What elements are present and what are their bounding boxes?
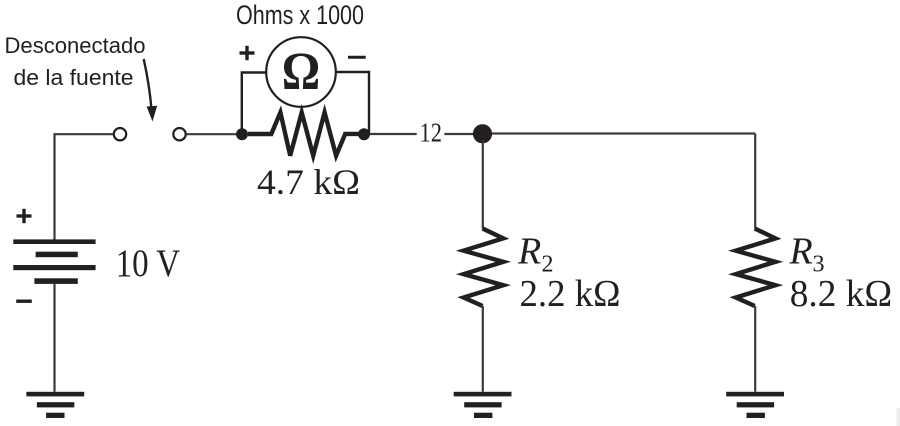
ground symbol GND2	[454, 392, 512, 418]
svg-text:R: R	[517, 231, 541, 273]
battery BT1 minus polarity label	[16, 300, 32, 303]
wire: switch to node A	[186, 133, 242, 135]
junction node C dot	[473, 124, 492, 143]
svg-text:R: R	[789, 231, 813, 273]
label: Desconectado de la fuente	[5, 33, 146, 90]
wire: node C down to R2	[482, 140, 484, 229]
svg-text:12: 12	[420, 117, 443, 147]
wire: rail corner down to R3	[754, 134, 756, 229]
svg-text:Ohms x 1000: Ohms x 1000	[236, 0, 364, 30]
wire: battery to ground	[53, 284, 55, 392]
wire: R2 to ground	[482, 306, 484, 392]
battery BT1 plus polarity label	[17, 209, 32, 223]
junction node A dot	[236, 128, 248, 140]
ohmmeter M1 body	[266, 37, 336, 107]
resistor R1 4.7k zigzag	[248, 112, 359, 155]
wire: label 12 to node C	[444, 133, 474, 135]
svg-text:Desconectado: Desconectado	[5, 33, 146, 58]
switch S1 open contact right terminal	[173, 128, 185, 140]
svg-text:8.2 kΩ: 8.2 kΩ	[790, 273, 893, 315]
ground symbol GND3	[726, 392, 784, 418]
resistor R2 zigzag	[464, 229, 504, 307]
svg-text:2.2 kΩ: 2.2 kΩ	[520, 273, 621, 315]
resistor R3 zigzag	[736, 229, 776, 307]
ohmmeter M1 minus polarity label	[348, 56, 366, 59]
svg-text:Ω: Ω	[282, 42, 320, 102]
svg-text:4.7 kΩ: 4.7 kΩ	[257, 162, 360, 202]
ground symbol GND1	[26, 392, 84, 418]
svg-text:10 V: 10 V	[116, 242, 181, 285]
ohmmeter M1 positive lead wire	[242, 73, 266, 135]
ohmmeter M1 plus polarity label	[240, 46, 255, 60]
wire: R3 to ground	[754, 306, 756, 392]
switch S1 open contact left terminal	[114, 128, 126, 140]
ohmmeter M1 negative lead wire	[336, 72, 369, 134]
wire: node C to R3 branch top rail	[492, 132, 755, 134]
scrollbar fragment bottom-right	[897, 408, 900, 426]
svg-text:de la fuente: de la fuente	[14, 65, 134, 90]
junction node B dot	[358, 128, 370, 140]
annotation arrow to switch	[144, 59, 158, 122]
wire: node B to label 12	[370, 133, 417, 135]
wire: battery top to switch	[55, 134, 113, 240]
battery BT1 plates	[13, 239, 95, 284]
